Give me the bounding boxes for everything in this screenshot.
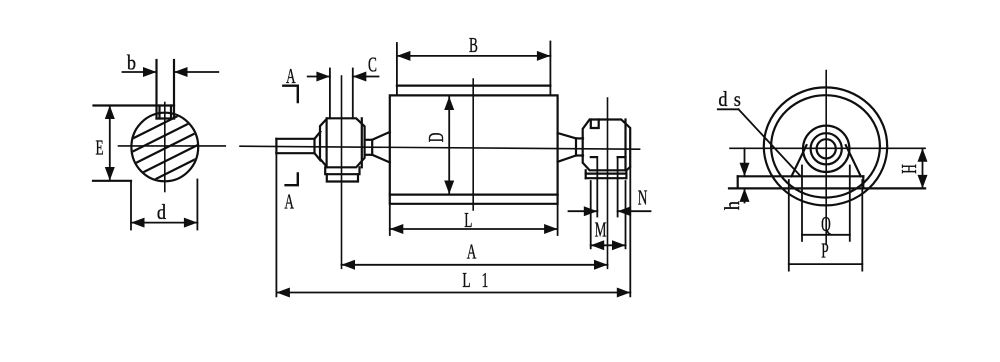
- svg-text:A: A: [467, 239, 477, 263]
- svg-text:M: M: [595, 217, 607, 241]
- svg-text:H: H: [897, 164, 921, 174]
- svg-text:L: L: [464, 208, 472, 232]
- svg-text:d s: d s: [718, 88, 741, 112]
- svg-text:1: 1: [482, 268, 489, 292]
- svg-text:L: L: [462, 268, 470, 292]
- svg-text:C: C: [368, 52, 377, 76]
- svg-text:h: h: [721, 201, 745, 210]
- svg-text:D: D: [424, 133, 448, 143]
- svg-text:N: N: [638, 185, 648, 209]
- svg-text:E: E: [96, 135, 104, 159]
- svg-text:P: P: [821, 238, 828, 262]
- svg-text:b: b: [127, 51, 136, 75]
- svg-text:A: A: [284, 189, 294, 213]
- svg-text:A: A: [286, 64, 296, 88]
- svg-text:Q: Q: [821, 212, 831, 236]
- svg-text:d: d: [157, 201, 166, 225]
- svg-text:B: B: [469, 33, 478, 57]
